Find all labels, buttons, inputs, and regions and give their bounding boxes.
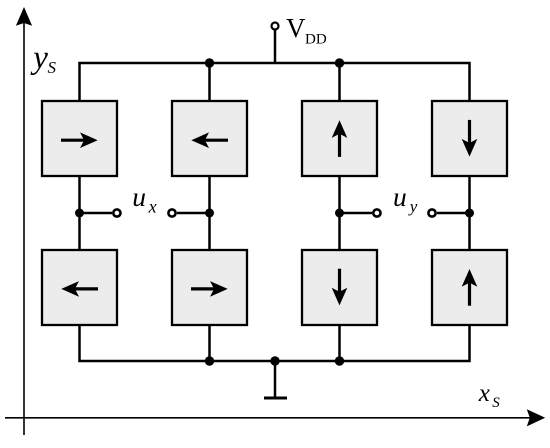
svg-text:y: y bbox=[408, 197, 418, 216]
svg-text:u: u bbox=[393, 181, 407, 212]
svg-text:S: S bbox=[492, 395, 500, 411]
svg-text:x: x bbox=[148, 197, 157, 217]
svg-text:DD: DD bbox=[305, 32, 327, 48]
svg-text:S: S bbox=[48, 58, 57, 77]
svg-text:u: u bbox=[132, 181, 146, 212]
svg-text:y: y bbox=[30, 40, 48, 76]
svg-text:V: V bbox=[286, 13, 306, 43]
svg-text:x: x bbox=[478, 380, 490, 407]
